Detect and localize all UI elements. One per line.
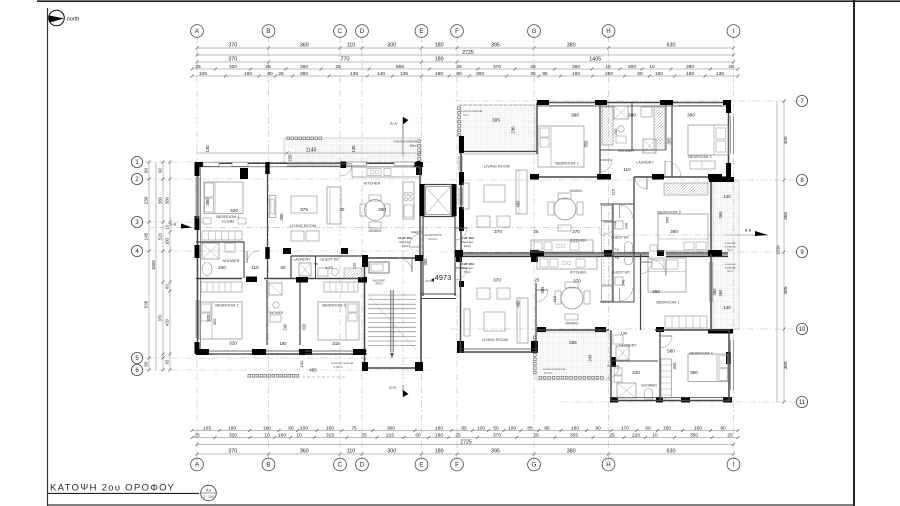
flat202 guest wc fixtures: [615, 221, 623, 229]
svg-text:DINING: DINING: [369, 229, 382, 233]
grid line F: [456, 36, 458, 462]
grid line 11: [560, 401, 800, 403]
grid line 4: [145, 250, 430, 252]
grid bubble row 4 left: [131, 245, 142, 256]
svg-text:25: 25: [195, 64, 201, 70]
flat 201 top wall: [196, 162, 420, 164]
grid line 5: [145, 357, 430, 359]
svg-text:5m²: 5m²: [727, 248, 732, 252]
flat202 bed3 bed: [658, 214, 708, 251]
svg-text:360: 360: [652, 289, 660, 294]
svg-text:25: 25: [533, 432, 539, 438]
svg-text:350: 350: [279, 213, 284, 221]
dimension chain left inner: [165, 161, 172, 372]
kitchen counter top: [352, 167, 420, 177]
bedroom 2 bed: [199, 302, 242, 339]
svg-text:395: 395: [492, 118, 500, 124]
svg-text:BEDROOM 3: BEDROOM 3: [657, 210, 680, 215]
svg-text:E: E: [419, 462, 423, 469]
svg-text:370: 370: [494, 229, 502, 235]
svg-text:375: 375: [300, 207, 308, 213]
svg-text:GUEST WC: GUEST WC: [611, 236, 630, 240]
svg-text:160: 160: [244, 71, 252, 77]
svg-text:320: 320: [229, 341, 237, 346]
living big sofa: [327, 187, 341, 224]
flat202 bed2: [688, 125, 728, 155]
svg-text:E: E: [419, 28, 423, 35]
covered veranda flat 202 top left: [459, 105, 535, 151]
svg-text:25: 25: [335, 64, 341, 70]
flat203 bottom wall: [611, 400, 731, 402]
flat203 bedroom1 door arc: [649, 259, 666, 276]
laundry left wall: [290, 256, 292, 279]
shower/bedroom3 divider: [299, 280, 301, 345]
svg-text:SHOWER: SHOWER: [269, 311, 284, 315]
svg-text:370: 370: [493, 64, 501, 70]
window bedroom1 top: [549, 102, 594, 104]
flat202 laundry fixtures: [641, 107, 652, 117]
bedroom 3 closet: [324, 282, 358, 292]
sliding door living veranda: [287, 163, 340, 165]
svg-text:AREA: AREA: [375, 282, 383, 286]
grid bubble B top: [262, 25, 275, 38]
svg-text:GUEST WC: GUEST WC: [612, 271, 631, 275]
section marker B-B right: [726, 234, 768, 236]
ensuite top wall: [196, 241, 244, 243]
svg-text:60: 60: [456, 71, 462, 77]
grid bubble C bottom: [334, 458, 347, 471]
svg-text:25: 25: [278, 71, 284, 77]
svg-text:315: 315: [332, 341, 340, 346]
svg-text:355: 355: [569, 340, 577, 345]
north arrow symbol: [49, 10, 80, 26]
svg-text:200: 200: [628, 113, 636, 119]
svg-text:85: 85: [544, 425, 550, 431]
svg-text:KITCHEN: KITCHEN: [570, 239, 587, 243]
svg-text:T.B.: T.B.: [615, 256, 620, 260]
svg-text:115: 115: [611, 188, 616, 195]
svg-text:BEDROOM 2: BEDROOM 2: [215, 303, 238, 308]
window flat202 right bedroom2: [730, 116, 732, 154]
svg-text:25: 25: [728, 64, 734, 70]
svg-text:110: 110: [347, 449, 356, 455]
flat202 closets: [602, 107, 613, 145]
svg-text:80: 80: [267, 71, 273, 77]
svg-text:BEDROOM 2: BEDROOM 2: [688, 154, 711, 159]
grid bubble row 2 left: [131, 173, 142, 184]
flat 202 right wall: [728, 103, 730, 181]
grid line 10: [450, 328, 800, 330]
svg-text:220: 220: [632, 432, 640, 438]
flat203 laundry bottom wall: [611, 360, 658, 362]
svg-text:H: H: [606, 28, 610, 35]
svg-text:350: 350: [584, 140, 589, 148]
window bedroom2 left: [195, 300, 197, 338]
svg-text:300: 300: [387, 43, 396, 49]
flat203 living rug: [484, 312, 505, 331]
flat202 bed1: [538, 126, 584, 167]
dimension chain left outer: [144, 161, 151, 372]
svg-text:110: 110: [552, 295, 557, 302]
svg-text:150: 150: [663, 425, 671, 431]
grid line C: [339, 36, 341, 462]
bedroom2 left wall: [671, 103, 673, 178]
svg-text:220: 220: [288, 154, 293, 162]
svg-text:B-B: B-B: [170, 223, 177, 227]
window bedroom3 bottom: [305, 350, 350, 352]
svg-text:60: 60: [637, 71, 643, 77]
svg-text:380: 380: [686, 64, 694, 70]
grid line I: [733, 36, 735, 462]
stairwell right wall: [420, 258, 422, 368]
laundry guest top wall: [291, 255, 364, 257]
flat202 tv unit: [463, 183, 469, 209]
svg-text:110: 110: [347, 43, 356, 49]
lobby corridor walls: [422, 216, 424, 296]
grid bubble row 5 left: [131, 352, 142, 363]
svg-text:F: F: [455, 28, 459, 35]
shower mid fixtures: [269, 283, 282, 295]
svg-text:200: 200: [218, 265, 226, 270]
svg-text:150: 150: [655, 71, 663, 77]
dimension chain top span row: [196, 43, 736, 50]
page frame right edge: [853, 0, 855, 506]
svg-text:1065: 1065: [151, 260, 156, 270]
svg-text:8.7m²: 8.7m²: [544, 371, 552, 375]
flat203 bed2 closet column: [661, 359, 672, 398]
svg-text:KITCHEN: KITCHEN: [364, 182, 381, 186]
svg-text:10: 10: [652, 432, 658, 438]
section line B-B horizontal: [192, 227, 600, 229]
svg-text:LAUNDRY: LAUNDRY: [636, 161, 654, 165]
living sofas: [291, 231, 304, 241]
svg-text:50: 50: [493, 425, 499, 431]
kitchen L counter flat203: [602, 286, 613, 301]
svg-text:10: 10: [605, 64, 611, 70]
svg-text:535: 535: [144, 300, 149, 308]
svg-text:145: 145: [144, 232, 149, 240]
laundry/guest divider: [315, 256, 317, 279]
svg-text:130: 130: [205, 145, 210, 153]
pier kitchen corner: [417, 161, 421, 172]
svg-text:180: 180: [165, 237, 170, 245]
svg-text:60: 60: [288, 425, 294, 431]
bedroom1 closet: [202, 231, 242, 240]
grid bubble row 11 right: [796, 396, 807, 407]
grid line 1: [145, 161, 430, 163]
svg-text:180: 180: [435, 449, 444, 455]
flat203 shower right wall / bedroom2 left: [659, 330, 661, 401]
svg-text:370: 370: [158, 314, 163, 322]
svg-text:420: 420: [165, 318, 170, 326]
flat203 right wall lower: [728, 330, 730, 401]
guest wc flat203 walls: [600, 301, 634, 303]
svg-text:240: 240: [625, 223, 629, 229]
svg-text:25: 25: [535, 278, 540, 283]
svg-text:160: 160: [572, 71, 580, 77]
svg-text:60: 60: [165, 284, 170, 289]
svg-text:480: 480: [516, 300, 521, 308]
svg-text:B: B: [266, 28, 270, 35]
grid bubble G top: [528, 25, 541, 38]
living tv unit: [269, 196, 276, 218]
stair door arc: [398, 258, 412, 272]
staircase: [368, 290, 416, 358]
veranda flat202 left balustrade: [458, 107, 461, 136]
svg-text:400: 400: [783, 136, 789, 144]
covered veranda flat 201 top: [284, 138, 420, 164]
svg-text:C: C: [338, 28, 343, 35]
bedroom2/shower divider: [266, 280, 268, 345]
flat202 shower room fixtures: [614, 106, 628, 119]
laundry machine: [299, 263, 311, 276]
svg-text:365: 365: [667, 137, 672, 145]
svg-text:370: 370: [573, 279, 581, 284]
svg-text:320: 320: [206, 314, 211, 322]
bedroom3 left wall: [633, 177, 635, 254]
svg-text:300: 300: [476, 71, 484, 77]
svg-text:G: G: [532, 28, 537, 35]
svg-text:north: north: [67, 17, 80, 23]
bedroom3 right wall / stair left: [364, 258, 366, 368]
svg-text:1140: 1140: [306, 148, 317, 154]
bedroom1/living wall: [267, 166, 269, 278]
grid bubble I bottom: [727, 458, 740, 471]
flat203 wall y330: [536, 329, 609, 331]
svg-text:100: 100: [299, 360, 304, 367]
svg-text:25: 25: [194, 432, 200, 438]
grid bubble H bottom: [602, 458, 615, 471]
svg-text:LIVING ROOM: LIVING ROOM: [482, 337, 508, 342]
svg-text:75: 75: [351, 425, 357, 431]
svg-text:90: 90: [595, 425, 601, 431]
grid bubble G bottom: [528, 458, 541, 471]
flat203 bed1 closet: [665, 316, 707, 328]
svg-text:320: 320: [229, 64, 237, 70]
grid line 7: [455, 100, 800, 102]
veranda flat203 bottom balustrade: [539, 376, 603, 379]
svg-text:65: 65: [144, 361, 149, 367]
window flat202 left: [458, 156, 460, 171]
svg-text:180: 180: [435, 71, 443, 77]
section marker B-B left: [150, 227, 196, 229]
svg-text:350: 350: [690, 370, 698, 375]
dimension chain bottom overall 2725: [197, 444, 734, 446]
svg-text:BEDROOM 1: BEDROOM 1: [656, 300, 679, 305]
window flat203 bed1 right: [709, 262, 711, 302]
svg-text:25: 25: [340, 207, 345, 212]
dimension chain bottom row 25s: [191, 432, 740, 439]
bedroom1 flat203 right wall: [710, 254, 712, 330]
svg-text:135: 135: [400, 71, 408, 77]
stairwell bottom wall: [365, 367, 422, 369]
svg-text:D: D: [360, 28, 365, 35]
grid bubble A bottom: [191, 458, 204, 471]
svg-text:10: 10: [799, 327, 806, 333]
svg-text:250: 250: [605, 71, 613, 77]
svg-text:1405: 1405: [589, 57, 601, 63]
svg-text:630: 630: [667, 43, 676, 49]
svg-text:BEDROOM 3: BEDROOM 3: [322, 303, 345, 308]
grid bubble row 6 left: [131, 364, 142, 375]
flat202 bed2 low cabinet: [690, 161, 715, 169]
svg-text:KITCHEN: KITCHEN: [570, 271, 587, 275]
flat 202 mid wall y177: [530, 176, 600, 178]
svg-text:350: 350: [423, 258, 428, 266]
dimension chain top row 25s: [191, 64, 740, 71]
svg-text:355: 355: [570, 432, 578, 438]
svg-text:360: 360: [300, 43, 309, 49]
flat201 entry door: [409, 233, 423, 247]
dimension chain top detail row: [191, 71, 740, 78]
flat 201 left wall: [197, 163, 199, 355]
svg-text:240: 240: [283, 323, 288, 331]
veranda dim 1140: [196, 152, 420, 154]
guest wc walls flat202: [600, 203, 634, 205]
grid bubble E bottom: [415, 458, 428, 471]
svg-text:350: 350: [690, 432, 698, 438]
svg-text:360: 360: [300, 449, 309, 455]
flat202 dining table: [554, 198, 576, 220]
svg-text:135: 135: [716, 71, 724, 77]
svg-text:10: 10: [264, 432, 270, 438]
svg-text:180: 180: [263, 425, 271, 431]
svg-text:565: 565: [396, 64, 404, 70]
svg-text:90: 90: [720, 425, 726, 431]
structural piers left block: [195, 162, 424, 372]
flat203 laundry machines: [616, 346, 629, 360]
grid bubble E top: [415, 25, 428, 38]
svg-text:135: 135: [350, 71, 358, 77]
svg-text:110: 110: [623, 167, 631, 172]
ensuite right wall: [243, 242, 245, 278]
flat 203 left wall: [460, 257, 462, 353]
guest wc fixtures: [318, 268, 328, 276]
grid line D: [361, 36, 363, 462]
grid bubble D top: [356, 25, 369, 38]
dining table flat201: [365, 200, 386, 221]
svg-text:380: 380: [567, 449, 576, 455]
svg-text:360: 360: [572, 64, 580, 70]
grid bubble C top: [334, 25, 347, 38]
svg-text:BEDROOM 1: BEDROOM 1: [555, 161, 578, 166]
svg-text:1530: 1530: [776, 245, 781, 255]
svg-text:360: 360: [300, 71, 308, 77]
svg-text:LIVING ROOM: LIVING ROOM: [290, 223, 316, 228]
svg-text:230: 230: [144, 196, 149, 204]
svg-text:160: 160: [326, 425, 334, 431]
svg-text:240: 240: [622, 280, 626, 286]
svg-text:365: 365: [718, 211, 723, 219]
svg-text:100: 100: [477, 425, 485, 431]
grid bubble D bottom: [356, 458, 369, 471]
page frame bottom edge: [48, 504, 855, 506]
dimension chain right 1530: [776, 101, 778, 402]
svg-text:190: 190: [621, 331, 628, 336]
dimension chain left mid: [158, 161, 165, 372]
svg-text:110: 110: [251, 265, 259, 270]
svg-text:90: 90: [144, 168, 149, 174]
structural piers right block: [455, 100, 734, 403]
flat202 big sofa: [516, 170, 527, 214]
flat202 kitchen counter: [531, 240, 593, 252]
svg-text:35: 35: [530, 71, 536, 77]
svg-text:85: 85: [527, 425, 533, 431]
ensuite bottom / bedrooms top wall: [196, 278, 242, 280]
svg-text:85: 85: [461, 425, 467, 431]
grid bubble F bottom: [451, 458, 464, 471]
flat203 dining table: [561, 287, 583, 309]
svg-text:395: 395: [491, 449, 500, 455]
svg-text:320: 320: [229, 432, 237, 438]
svg-text:380: 380: [205, 198, 210, 206]
svg-text:160: 160: [278, 432, 286, 438]
dimension chain bottom detail row: [191, 425, 740, 432]
svg-text:360: 360: [670, 229, 678, 234]
svg-text:380: 380: [567, 43, 576, 49]
flat202 bed2 door arc: [665, 161, 681, 177]
svg-text:B-B: B-B: [745, 229, 752, 233]
svg-text:60: 60: [415, 432, 421, 438]
covered veranda flat 201 bottom: [247, 376, 345, 378]
kitchen tall units: [403, 182, 414, 219]
flat203 big sofa: [517, 298, 528, 343]
svg-text:T.B.: T.B.: [314, 262, 319, 266]
flat 202 left wall: [460, 138, 462, 254]
grid line 6: [145, 369, 430, 371]
party wall flats 202/203: [456, 252, 728, 254]
grid bubble row 1 left: [131, 156, 142, 167]
window flat203 bed2 right: [730, 340, 732, 390]
svg-text:365: 365: [783, 212, 789, 220]
dimension chain right outer: [783, 100, 789, 404]
svg-text:770: 770: [341, 57, 350, 63]
svg-text:1.45: 1.45: [325, 265, 334, 270]
svg-text:180: 180: [435, 432, 443, 438]
svg-text:GUEST WC: GUEST WC: [320, 258, 340, 262]
svg-text:360: 360: [718, 289, 723, 297]
svg-text:5m²: 5m²: [727, 269, 732, 273]
covered veranda right strip: [713, 181, 739, 329]
svg-text:580: 580: [667, 349, 675, 354]
window bedroom2 bottom: [212, 350, 250, 352]
svg-text:I: I: [733, 28, 735, 35]
dimension chain top row 770: [196, 57, 736, 64]
veranda right balustrade: [418, 140, 421, 160]
grid bubble I top: [727, 25, 740, 38]
grid bubble A top: [191, 25, 204, 38]
svg-text:315: 315: [326, 432, 334, 438]
svg-text:385: 385: [783, 286, 789, 294]
svg-text:520: 520: [158, 232, 163, 240]
flat202 sofas: [477, 216, 490, 227]
flat203 bed1: [648, 258, 686, 292]
section line A-A: [402, 117, 404, 156]
corridor link walls: [421, 293, 456, 295]
svg-text:370: 370: [228, 449, 237, 455]
bedroom 2 closet: [201, 282, 242, 292]
flat203 laundry/shower left wall: [610, 330, 612, 401]
grid bubble row 7 right: [796, 95, 807, 106]
sliding doors kitchen veranda: [347, 162, 367, 166]
grid line 2: [145, 178, 430, 180]
grid bubble row 3 left: [131, 216, 142, 227]
svg-text:100: 100: [508, 425, 516, 431]
grid line 9: [440, 251, 800, 253]
flat 202 living top wall: [459, 151, 537, 153]
bedroom3 right wall: [710, 180, 712, 254]
svg-text:240: 240: [613, 128, 618, 135]
